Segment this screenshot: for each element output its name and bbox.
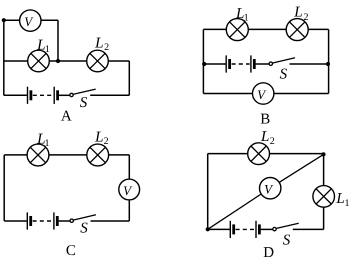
wire D: top right segment <box>270 153 324 155</box>
battery cell 2 (circuit D) <box>256 221 259 238</box>
voltmeter V (circuit B) <box>253 83 274 104</box>
label L2 (circuit D) <box>260 129 275 147</box>
junction dot D (top-right node) <box>321 152 325 156</box>
lamp L2 (circuit B) <box>286 19 308 41</box>
wire A: bottom left segment <box>4 94 27 96</box>
wire B: middle left segment <box>203 63 225 65</box>
voltmeter V (circuit A) <box>20 10 41 31</box>
wire D: right vertical lower <box>323 207 325 229</box>
label A <box>61 108 72 124</box>
battery cell 1 (circuit C) <box>27 212 30 229</box>
label L1 (circuit A) <box>36 37 50 55</box>
junction dot B (left middle node) <box>202 62 206 66</box>
wire C: switch to corner <box>91 220 130 222</box>
battery cell 1 (circuit B) <box>226 55 229 72</box>
wire A: right vertical <box>128 61 130 95</box>
dashed wire between cells (circuit A) <box>33 94 52 96</box>
svg-text:L: L <box>260 129 269 145</box>
svg-text:C: C <box>66 243 76 259</box>
svg-text:L: L <box>94 35 103 51</box>
label L2 (circuit B) <box>293 5 308 23</box>
wire A: left vertical <box>3 20 5 95</box>
wire C: right vertical upper <box>128 155 130 179</box>
wire B: left vertical <box>202 29 204 93</box>
wire D: right vertical upper <box>323 154 325 186</box>
dashed wire between cells (circuit C) <box>33 220 52 222</box>
wire C: right vertical lower <box>128 200 130 221</box>
battery cell 1 (circuit A) <box>28 87 31 104</box>
wire B: top left segment <box>203 28 226 30</box>
junction dot B (right middle node) <box>326 62 330 66</box>
label L2 (circuit C) <box>94 129 108 147</box>
lamp L1 (circuit C) <box>27 144 49 166</box>
svg-text:S: S <box>80 221 88 237</box>
svg-text:2: 2 <box>104 136 109 147</box>
svg-text:D: D <box>263 245 274 260</box>
wire C: top middle segment <box>49 154 87 156</box>
voltmeter V (circuit D) <box>260 178 281 199</box>
battery cell 2 (circuit B) <box>251 55 254 72</box>
wire B: battery to switch <box>256 63 269 65</box>
label S (circuit B) <box>280 66 288 82</box>
wire D: left vertical <box>207 154 209 230</box>
svg-text:S: S <box>283 233 291 249</box>
label L1 (circuit C) <box>36 131 49 149</box>
svg-text:1: 1 <box>45 138 50 149</box>
dashed wire between cells (circuit B) <box>232 63 250 65</box>
wire C: top right segment <box>109 154 130 156</box>
wire A: middle right segment <box>108 60 129 62</box>
wire B: bottom right segment <box>274 93 329 95</box>
label L1 (circuit B) <box>235 6 249 24</box>
wire A: voltmeter to corner <box>41 19 58 21</box>
svg-text:A: A <box>61 108 72 124</box>
label S (circuit C) <box>80 221 88 237</box>
wire C: top left segment <box>4 154 27 156</box>
svg-text:1: 1 <box>345 198 350 209</box>
wire D: switch to corner <box>293 228 324 230</box>
svg-text:2: 2 <box>270 136 275 147</box>
wire D: battery to switch <box>261 228 273 230</box>
voltmeter V (circuit C) <box>119 179 140 200</box>
wire A: L1 to L2 segment <box>49 60 86 62</box>
battery cell 2 (circuit C) <box>54 212 57 229</box>
label D <box>263 245 274 261</box>
switch S (circuit C) <box>70 215 96 223</box>
wire A: junction to voltmeter <box>4 19 20 21</box>
wire D: top left segment <box>208 153 248 155</box>
wire C: bottom left segment <box>4 220 27 222</box>
wire A: down to middle node <box>57 20 59 61</box>
svg-text:2: 2 <box>304 12 309 23</box>
label L2 (circuit A) <box>94 35 109 53</box>
junction dot A (top-left node) <box>2 18 6 22</box>
junction dot D (bottom-left node) <box>206 227 210 231</box>
wire B: top right segment <box>308 28 328 30</box>
label B <box>260 111 270 127</box>
wire B: right vertical <box>328 29 330 93</box>
label L1 (circuit D) <box>335 191 349 209</box>
lamp L2 (circuit D) <box>248 143 270 165</box>
svg-text:L: L <box>94 129 103 145</box>
lamp L1 (circuit D) <box>313 186 335 208</box>
svg-text:S: S <box>80 95 88 111</box>
label S (circuit A) <box>80 95 88 111</box>
switch S (circuit A) <box>70 89 96 97</box>
label S (circuit D) <box>283 233 291 249</box>
svg-text:L: L <box>335 191 344 207</box>
svg-text:1: 1 <box>45 44 50 55</box>
wire A: battery to switch <box>59 94 70 96</box>
diagonal wire D: node to voltmeter <box>208 194 261 229</box>
svg-text:S: S <box>280 66 288 82</box>
lamp L2 (circuit A) <box>87 50 109 72</box>
switch S (circuit D) <box>273 223 299 231</box>
label C <box>66 243 76 259</box>
lamp L1 (circuit A) <box>28 50 50 72</box>
battery cell 1 (circuit D) <box>230 221 233 238</box>
wire B: bottom left segment <box>203 93 252 95</box>
svg-text:2: 2 <box>104 42 109 53</box>
wire C: left vertical <box>3 155 5 221</box>
svg-text:1: 1 <box>244 13 249 24</box>
diagonal wire D: voltmeter to node <box>279 154 323 182</box>
wire A: middle left segment <box>4 60 28 62</box>
dashed wire between cells (circuit D) <box>236 228 255 230</box>
switch S (circuit B) <box>269 58 295 66</box>
wire B: switch to right node <box>290 63 329 65</box>
lamp L2 (circuit C) <box>87 144 109 166</box>
wire D: bottom left segment <box>208 228 230 230</box>
svg-text:B: B <box>260 111 270 127</box>
lamp L1 (circuit B) <box>226 19 248 41</box>
battery cell 2 (circuit A) <box>54 87 57 104</box>
wire C: battery to switch <box>59 220 70 222</box>
wire B: top middle segment <box>248 28 286 30</box>
svg-text:L: L <box>293 5 302 21</box>
wire A: switch to corner <box>90 94 129 96</box>
junction dot A (middle node) <box>56 59 60 63</box>
